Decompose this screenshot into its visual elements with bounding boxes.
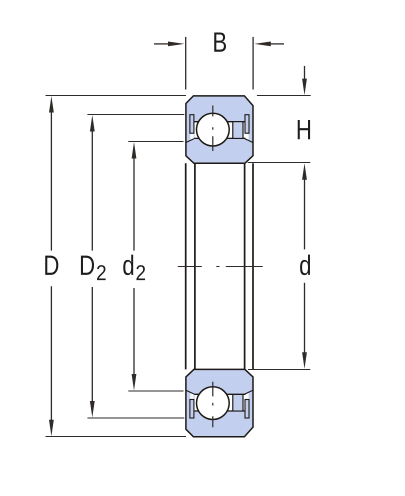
label B [214,32,226,51]
dimension B extension lines [186,37,253,90]
dimension D line and arrows [50,112,52,421]
dimension d2 extension lines [128,142,183,392]
dimension D2 extension lines [87,115,184,419]
label d2 [123,255,133,276]
dimension B left arrow [154,43,169,45]
label D2 [81,256,94,275]
dimension d line and arrows [304,179,306,354]
right outer silhouette line [252,163,254,369]
dimension B right arrow [270,43,284,45]
dimension H extension line [257,95,311,97]
label d [300,255,310,276]
dimension D extension lines [46,96,187,437]
upper half cross-section [186,96,253,163]
lower half cross-section mirrored [186,369,253,436]
dimension H arrow [304,66,306,80]
label H [298,120,310,139]
dimension d2 line and arrows [133,158,135,375]
left bore edge line [194,163,196,369]
dimension d extension lines [248,163,311,370]
right bore edge line [244,163,246,369]
dimension D2 line and arrows [91,131,93,402]
bearing axis centre line [178,266,263,268]
left outer silhouette line [185,163,187,369]
label D [45,256,58,275]
